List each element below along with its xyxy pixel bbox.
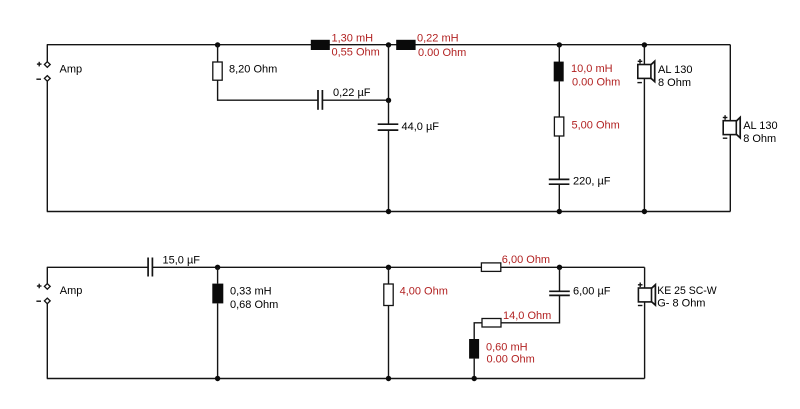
- resistor 6,00 Ohm (series, top rail): [481, 263, 500, 272]
- wire resistor 14,0 left lead to inductor 0,60: [474, 323, 482, 339]
- svg-text:15,0 µF: 15,0 µF: [163, 255, 201, 267]
- inductor 0,22 mH: [396, 40, 415, 50]
- amp + terminal (bottom network): [37, 284, 50, 290]
- wire bottom rail (bottom network): [47, 378, 645, 380]
- svg-text:10,0 mH: 10,0 mH: [571, 63, 613, 75]
- wire cap 220 bottom lead: [558, 185, 560, 212]
- junction node F (bottom rail x=559.3): [557, 209, 562, 214]
- svg-text:14,0 Ohm: 14,0 Ohm: [503, 310, 551, 322]
- svg-text:0,60 mH: 0,60 mH: [486, 342, 528, 354]
- amp - terminal (top network): [36, 76, 50, 82]
- junction node E (top rail x=559.3): [557, 42, 562, 47]
- junction node H (bottom rail x=644.4): [642, 209, 647, 214]
- svg-text:0,22 mH: 0,22 mH: [417, 32, 459, 44]
- svg-text:AL 130: AL 130: [658, 64, 692, 76]
- svg-text:8 Ohm: 8 Ohm: [658, 77, 691, 89]
- amp + terminal (top network): [37, 62, 50, 68]
- junction node C (top rail x=388.5): [386, 42, 391, 47]
- svg-text:8,20 Ohm: 8,20 Ohm: [229, 63, 277, 75]
- label KE 25 SC-W / G- 8 Ohm: [657, 285, 717, 310]
- capacitor 15,0 uF: [148, 258, 152, 277]
- inductor 10,0 mH: [554, 62, 564, 82]
- svg-text:KE 25 SC-W: KE 25 SC-W: [657, 285, 717, 297]
- svg-text:AL 130: AL 130: [743, 120, 777, 132]
- svg-text:0.00 Ohm: 0.00 Ohm: [487, 354, 535, 366]
- junction node J (bottom rail x=217.5): [215, 376, 220, 381]
- wire right edge (top network): [729, 45, 731, 212]
- junction node A (top rail x=217.5): [215, 42, 220, 47]
- capacitor 44,0 uF: [378, 124, 399, 130]
- capacitor 6,00 uF: [549, 291, 570, 295]
- junction node M (top rail x=559.5): [557, 265, 562, 270]
- wire speaker 1 branch (x=644.4): [643, 45, 645, 212]
- wire resistor 4,00 bottom lead: [388, 306, 390, 379]
- resistor 5,00 Ohm: [554, 117, 563, 136]
- capacitor 220, uF: [549, 179, 570, 184]
- svg-text:6,00 µF: 6,00 µF: [573, 286, 611, 298]
- svg-text:8 Ohm: 8 Ohm: [743, 133, 776, 145]
- value label 1,30 mH / 0,55 Ohm: [332, 32, 380, 58]
- wire resistor 4,00 top lead: [388, 267, 390, 284]
- svg-text:4,00 Ohm: 4,00 Ohm: [400, 285, 448, 297]
- junction node N (bottom rail x=474.2): [472, 376, 477, 381]
- value label 0,22 mH / 0.00 Ohm: [417, 32, 466, 59]
- junction node L (bottom rail x=388.5): [386, 376, 391, 381]
- wire left edge lower (top network): [46, 81, 48, 211]
- junction node I (top rail x=217.5 bottom network): [215, 265, 220, 270]
- wire right edge (bottom network): [644, 267, 646, 378]
- speaker AL 130 (first): [637, 59, 654, 83]
- wire resistor 8,20 top lead: [217, 45, 219, 62]
- wire top rail right of cap 15,0: [153, 266, 645, 268]
- wire inductor 0,33 top lead: [217, 267, 219, 283]
- wire between 10,0 mH and 5,00 Ohm: [558, 81, 560, 117]
- wire left edge upper (amp + lead, top network): [46, 45, 48, 62]
- svg-text:0,33 mH: 0,33 mH: [230, 286, 272, 298]
- inductor 0,33 mH: [212, 284, 223, 304]
- inductor 0,60 mH: [469, 339, 479, 359]
- speaker KE 25 SC-W (right edge, bottom network): [638, 283, 656, 306]
- svg-text:0,68 Ohm: 0,68 Ohm: [230, 299, 278, 311]
- wire inductor 0,60 bottom lead: [473, 359, 475, 379]
- resistor 4,00 Ohm: [384, 284, 393, 306]
- svg-text:1,30 mH: 1,30 mH: [332, 32, 374, 44]
- capacitor 0,22 uF: [318, 90, 322, 110]
- resistor 14,0 Ohm: [482, 319, 501, 328]
- resistor 8,20 Ohm: [213, 62, 222, 80]
- wire resistor 8,20 bottom lead to cap 0,22: [218, 80, 318, 100]
- wire top rail (top network): [47, 44, 731, 46]
- wire bottom rail (top network): [47, 211, 731, 213]
- wire inductor 10,0 top lead: [558, 45, 560, 62]
- junction node G (top rail x=644.4): [642, 42, 647, 47]
- svg-text:Amp: Amp: [60, 64, 83, 76]
- value label 0,33 mH / 0,68 Ohm: [230, 286, 278, 311]
- svg-text:6,00 Ohm: 6,00 Ohm: [502, 254, 550, 266]
- svg-text:0.00 Ohm: 0.00 Ohm: [572, 77, 620, 89]
- svg-text:0,55 Ohm: 0,55 Ohm: [332, 47, 380, 59]
- wire inductor 0,33 bottom lead: [217, 303, 219, 378]
- label AL 130 / 8 Ohm (second): [743, 120, 777, 145]
- wire left edge lower (bottom network): [46, 304, 48, 379]
- wire cap 0,22 right lead: [323, 99, 389, 101]
- speaker AL 130 (second, right edge): [723, 115, 740, 138]
- wire cap 6,00 bottom lead and run to resistor 14,0: [501, 296, 560, 323]
- value label 10,0 mH / 0.00 Ohm: [571, 63, 620, 89]
- svg-text:220, µF: 220, µF: [573, 176, 611, 188]
- svg-text:0,22 µF: 0,22 µF: [333, 87, 371, 99]
- label AL 130 / 8 Ohm (first): [658, 64, 692, 89]
- svg-text:5,00 Ohm: 5,00 Ohm: [572, 120, 620, 132]
- wire top rail left of cap 15,0 (bottom network): [47, 266, 148, 268]
- wire between 5,00 Ohm and 220 uF: [558, 136, 560, 179]
- wire left edge upper (bottom network): [46, 267, 48, 283]
- wire shunt branch lower (x=388.5): [388, 131, 390, 212]
- value label 0,60 mH / 0.00 Ohm: [486, 342, 535, 366]
- wire cap 6,00 top lead: [559, 267, 561, 290]
- svg-text:G- 8 Ohm: G- 8 Ohm: [657, 298, 705, 310]
- junction node K (top rail x=388.5 bottom network): [386, 265, 391, 270]
- junction node D (bottom rail x=388.5): [386, 209, 391, 214]
- wire shunt branch upper (x=388.5): [388, 45, 390, 124]
- junction node B (x=388.5 y=100): [386, 98, 391, 103]
- svg-text:44,0 µF: 44,0 µF: [402, 121, 440, 133]
- inductor 1,30 mH: [311, 40, 330, 50]
- amp - terminal (bottom network): [36, 298, 50, 304]
- svg-text:0.00 Ohm: 0.00 Ohm: [418, 47, 466, 59]
- svg-text:Amp: Amp: [60, 285, 83, 297]
